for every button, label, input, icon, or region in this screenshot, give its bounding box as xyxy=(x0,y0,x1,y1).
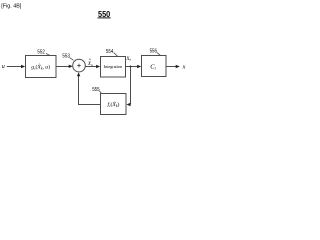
label 553 xyxy=(62,54,73,61)
label 555 xyxy=(92,87,101,94)
svg-text:553: 553 xyxy=(62,54,70,60)
svg-text:556: 556 xyxy=(150,49,158,55)
summing junction 553 xyxy=(73,59,86,72)
label 552 xyxy=(37,50,50,56)
title 550 xyxy=(98,10,111,19)
block 554 Integration xyxy=(101,57,126,78)
svg-text:554: 554 xyxy=(106,49,114,55)
label 554 xyxy=(106,49,118,57)
wire feedback down from junction xyxy=(130,67,132,105)
junction node xyxy=(130,66,132,68)
svg-text:Integration: Integration xyxy=(104,64,123,69)
wire block 552 to summer 553 xyxy=(56,66,69,68)
svg-text:u: u xyxy=(2,64,5,70)
wire feedback from block 555 to summer xyxy=(79,104,101,106)
svg-text:555: 555 xyxy=(92,87,100,93)
wire summer to block 554 xyxy=(85,66,97,68)
wire block 554 to block 556 xyxy=(126,66,138,68)
block 555 f_c(Xk) xyxy=(101,94,127,115)
block 552 g_c(Xk,u) xyxy=(26,56,57,78)
svg-text:552: 552 xyxy=(37,50,45,56)
wire u to block 552 xyxy=(7,66,22,68)
svg-text:[Fig. 4B]: [Fig. 4B] xyxy=(1,4,22,10)
wire output x xyxy=(166,66,176,68)
block 556 C_t xyxy=(142,56,167,77)
label 556 xyxy=(150,49,161,56)
svg-text:Xk: Xk xyxy=(125,57,131,62)
svg-text:x: x xyxy=(182,63,186,70)
